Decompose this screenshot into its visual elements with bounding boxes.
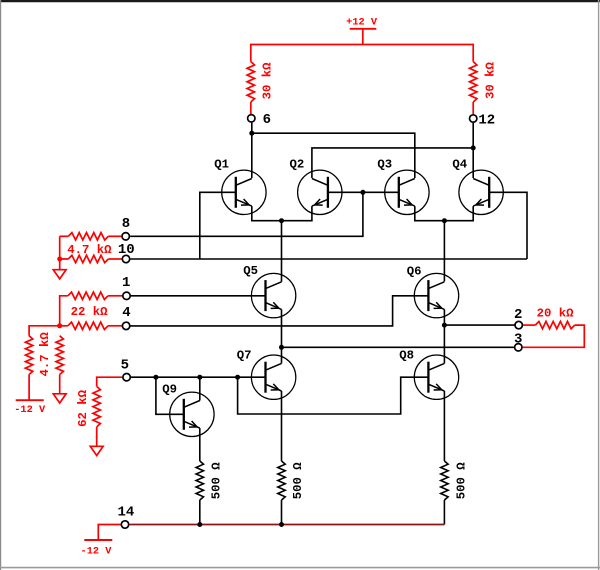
terminal pin 14 (121, 521, 128, 528)
label 62 kOhm (76, 389, 90, 427)
resistor 500 Ohm Q8 (441, 461, 448, 525)
label Q7 (237, 348, 252, 362)
svg-text:6: 6 (263, 112, 271, 128)
svg-text:Q3: Q3 (377, 157, 392, 171)
svg-text:14: 14 (117, 505, 134, 521)
label 22 kOhm (71, 305, 109, 319)
wire to Q8 base (238, 377, 429, 414)
wire Q5 emitter to Q7 collector (281, 309, 283, 363)
label 20 kOhm (537, 306, 575, 320)
label Q3 (377, 157, 392, 171)
label 500 Ohm Q9 (210, 462, 224, 500)
node Q1-Q2 emitter junction (279, 218, 284, 223)
wire pin2 (444, 324, 514, 326)
node pin3 junction (279, 345, 284, 350)
node rail Q7 (279, 522, 284, 527)
wire Q3-Q4 emitters (415, 206, 473, 221)
svg-text:-12 V: -12 V (81, 545, 113, 557)
wire +12V stem (362, 29, 364, 45)
label pin 12 (478, 113, 495, 129)
wire pin4 to Q6 base (131, 296, 429, 326)
wire Q8 emitter (443, 391, 445, 461)
svg-text:5: 5 (121, 358, 129, 374)
transistor Q8 (414, 355, 458, 399)
transistor Q2 (298, 170, 342, 214)
node pin5 junction c (235, 375, 240, 380)
node pin1-4 resistor junction (57, 323, 62, 328)
terminal pin 6 (248, 115, 255, 122)
svg-text:Q5: Q5 (243, 264, 258, 278)
resistor 4.7 kOhm pin10 (60, 236, 122, 262)
terminal pin 2 (515, 321, 522, 328)
label 4.7 kOhm bias (38, 332, 52, 377)
svg-text:30 kΩ: 30 kΩ (261, 62, 275, 100)
wire Q1-Q2 emitters (252, 206, 312, 221)
node pin5 junction a (153, 375, 158, 380)
resistor 4.7 kOhm to ground (56, 336, 63, 394)
terminal pin 5 (123, 374, 130, 381)
label 30 kOhm right (484, 61, 498, 99)
label pin 5 (121, 358, 129, 374)
svg-text:+12 V: +12 V (346, 17, 378, 29)
resistor 4.7 kOhm pin8 (60, 233, 122, 240)
label Q5 (243, 264, 258, 278)
wire to Q9 collector (199, 377, 201, 400)
transistor Q9 (170, 392, 214, 436)
svg-text:3: 3 (514, 332, 522, 348)
transistor Q4 (459, 170, 503, 214)
supply -12 V bar pin14 (84, 539, 112, 541)
label pin 14 (117, 505, 134, 521)
terminal pin 10 (122, 255, 129, 262)
svg-text:Q9: Q9 (162, 382, 177, 396)
label pin 1 (122, 275, 130, 291)
svg-text:Q2: Q2 (290, 157, 305, 171)
resistor to -12V left (25, 326, 59, 401)
label 500 Ohm Q7 (291, 462, 305, 500)
supply -12 V label pin14 (81, 545, 113, 557)
wire pin8 to Q2-Q3 bases (130, 192, 363, 236)
frame border left (0, 0, 2, 570)
ground 62k (90, 446, 103, 455)
transistor Q1 (222, 170, 266, 214)
svg-text:22 kΩ: 22 kΩ (71, 305, 109, 319)
node pin6 junction (249, 131, 254, 136)
svg-text:500 Ω: 500 Ω (291, 462, 305, 500)
terminal pin 3 (515, 344, 522, 351)
label 4.7 kOhm pin8 (67, 243, 112, 257)
label Q2 (290, 157, 305, 171)
transistor Q7 (251, 355, 295, 399)
supply -12 V bar left (16, 399, 44, 401)
label Q4 (452, 157, 467, 171)
wire pin12 to Q2 riser (312, 148, 473, 178)
resistor 500 Ohm Q7 (278, 461, 285, 525)
svg-text:Q4: Q4 (452, 157, 467, 171)
node Q3-Q4 emitter junction (442, 218, 447, 223)
svg-text:1: 1 (122, 275, 130, 291)
node resistor ground junction (57, 257, 62, 262)
node pin5 junction b (197, 375, 202, 380)
node rail Q9 (197, 522, 202, 527)
ground pin8-10 divider (53, 270, 66, 279)
wire emitter junction to Q5 collector (281, 221, 283, 282)
terminal pin 8 (122, 233, 129, 240)
wire bottom rail (129, 524, 444, 526)
svg-text:Q7: Q7 (237, 348, 252, 362)
node Q2-Q3 base junction (360, 190, 365, 195)
wire to ground pin8-10 (59, 259, 61, 270)
terminal pin 12 (470, 115, 477, 122)
svg-text:500 Ω: 500 Ω (454, 462, 468, 500)
svg-text:62 kΩ: 62 kΩ (76, 389, 90, 427)
label pin 10 (118, 242, 135, 258)
wire pin6 to Q1 collector (251, 123, 253, 178)
svg-text:10: 10 (118, 242, 135, 258)
label 30 kOhm left (261, 62, 275, 100)
resistor 20 kOhm (523, 321, 585, 347)
label Q1 (214, 157, 229, 171)
supply +12 V label (346, 17, 378, 29)
svg-text:4: 4 (122, 305, 130, 321)
wire emitter junction to Q6 collector (443, 221, 445, 282)
svg-text:4.7 kΩ: 4.7 kΩ (38, 332, 52, 377)
svg-text:500 Ω: 500 Ω (210, 462, 224, 500)
svg-text:Q8: Q8 (399, 349, 414, 363)
wire pin3 (282, 346, 515, 348)
svg-text:12: 12 (478, 113, 495, 129)
svg-text:Q1: Q1 (214, 157, 229, 171)
supply -12 V label left (14, 404, 46, 416)
wire to Q9 base (156, 377, 184, 414)
terminal pin 1 (123, 292, 130, 299)
wire +12V rail (251, 45, 473, 62)
wire Q7 emitter (281, 391, 283, 461)
label pin 2 (514, 307, 522, 323)
svg-text:20 kΩ: 20 kΩ (537, 306, 575, 320)
ground bias 4.7k (53, 394, 66, 403)
label Q6 (407, 264, 422, 278)
resistor 30 kOhm right (470, 62, 477, 115)
frame border right (598, 0, 600, 570)
svg-text:2: 2 (514, 307, 522, 323)
wire Q6 emitter to Q8 collector (443, 309, 445, 363)
resistor 500 Ohm Q9 (196, 461, 203, 525)
wire pin1 to Q5 base (131, 295, 266, 297)
wire pin14 to -12V (98, 525, 120, 541)
wire Q9 emitter (199, 428, 201, 461)
transistor Q3 (385, 170, 429, 214)
label pin 3 (514, 332, 522, 348)
label pin 6 (263, 112, 271, 128)
frame border top (0, 0, 600, 2)
label Q9 (162, 382, 177, 396)
terminal pin 4 (122, 322, 129, 329)
supply +12 V bar (350, 28, 377, 30)
wire Q2-Q3 base link (328, 191, 399, 193)
resistor 30 kOhm left (247, 62, 254, 114)
svg-text:30 kΩ: 30 kΩ (484, 61, 498, 99)
resistor 22 kOhm pin1 (60, 292, 122, 326)
label Q8 (399, 349, 414, 363)
wire pin12 to Q4 collector (472, 123, 474, 178)
label pin 4 (122, 305, 130, 321)
wire Q4 base riser (489, 192, 527, 259)
wire pin10 to Q1-Q4 bases (131, 258, 528, 260)
svg-text:8: 8 (122, 216, 130, 232)
node pin12 junction (471, 145, 476, 150)
transistor Q5 (251, 273, 295, 317)
node pin2 junction (442, 323, 447, 328)
wire pin6 to Q3 riser (252, 133, 415, 178)
wire pin5 to Q7 base (131, 376, 266, 378)
resistor 22 kOhm pin4 (60, 322, 122, 329)
svg-text:4.7 kΩ: 4.7 kΩ (67, 243, 112, 257)
wire Q1 base riser (200, 192, 236, 259)
svg-text:Q6: Q6 (407, 264, 422, 278)
frame border bottom (0, 567, 600, 569)
label 500 Ohm Q8 (454, 462, 468, 500)
svg-text:-12 V: -12 V (14, 404, 46, 416)
label pin 8 (122, 216, 130, 232)
transistor Q6 (414, 273, 458, 317)
resistor 62 kOhm (93, 377, 122, 446)
